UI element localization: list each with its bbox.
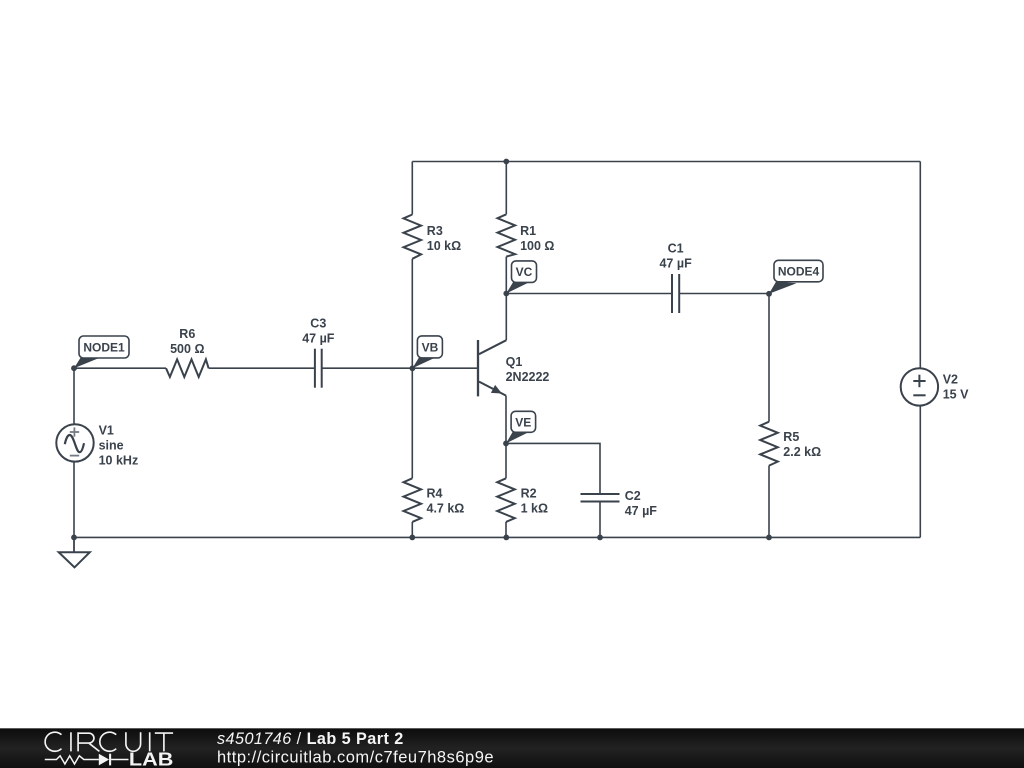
- wire NODE1 to V1: [73, 368, 75, 424]
- junction NODE1: [71, 365, 77, 371]
- junction VC: [503, 291, 509, 297]
- value label V2 15 V: [943, 373, 969, 402]
- resistor R1: [498, 214, 516, 256]
- junction bottom rail ground: [71, 535, 77, 541]
- wire R1 lower lead to VC: [505, 257, 507, 294]
- resistor R3: [404, 215, 422, 259]
- svg-text:R1: R1: [520, 224, 536, 238]
- junction bottom rail R5: [766, 535, 772, 541]
- node VE: [506, 411, 536, 443]
- resistor R6: [166, 359, 209, 377]
- node VB: [412, 336, 442, 368]
- capacitor C3: [315, 349, 322, 388]
- wire R3 lower lead to VB: [411, 259, 413, 369]
- svg-text:NODE1: NODE1: [83, 341, 125, 355]
- svg-text:15 V: 15 V: [943, 388, 969, 402]
- node NODE4: [769, 260, 823, 294]
- logo resistor-diode symbol: [45, 754, 129, 766]
- junction VE: [503, 441, 509, 447]
- svg-text:47 µF: 47 µF: [625, 504, 658, 518]
- junction bottom rail R4: [409, 535, 415, 541]
- value label R5 2.2 kΩ: [783, 430, 821, 459]
- svg-text:4.7 kΩ: 4.7 kΩ: [427, 502, 465, 516]
- wire R6 to C3: [209, 367, 315, 369]
- value label C3 47 µF: [302, 317, 335, 346]
- footer bar: [0, 728, 1024, 768]
- svg-text:100 Ω: 100 Ω: [520, 239, 554, 253]
- wire C1 to NODE4: [679, 293, 769, 295]
- svg-text:s4501746 / Lab 5 Part 2: s4501746 / Lab 5 Part 2: [217, 730, 404, 748]
- svg-text:V2: V2: [943, 373, 958, 387]
- transistor Q1: [478, 340, 506, 396]
- junction bottom rail R2: [503, 535, 509, 541]
- wire VE to C2: [506, 443, 600, 494]
- svg-text:1 kΩ: 1 kΩ: [521, 502, 548, 516]
- wire R5 lower lead: [768, 466, 770, 538]
- svg-text:C1: C1: [668, 242, 684, 256]
- svg-text:R6: R6: [179, 327, 195, 341]
- svg-text:10 kHz: 10 kHz: [99, 454, 139, 468]
- svg-text:NODE4: NODE4: [778, 265, 820, 279]
- svg-text:47 µF: 47 µF: [659, 257, 692, 271]
- resistor R2: [497, 478, 515, 522]
- resistor R4: [404, 478, 422, 522]
- wire VC to C1: [506, 293, 672, 295]
- value label Q1 2N2222: [506, 355, 550, 384]
- svg-text:sine: sine: [99, 439, 124, 453]
- voltage source V1: [56, 424, 93, 461]
- value label R2 1 kΩ: [521, 487, 548, 516]
- wire V1 to bottom rail: [73, 461, 75, 537]
- value label V1 sine 10 kHz: [99, 424, 139, 468]
- wire right rail lower (V2 to bottom rail): [919, 405, 921, 537]
- svg-text:V1: V1: [99, 424, 114, 438]
- node NODE1: [74, 336, 129, 368]
- capacitor C2: [581, 494, 620, 502]
- svg-text:2N2222: 2N2222: [506, 370, 550, 384]
- resistor R5: [760, 422, 778, 466]
- wire Q1 emitter to VE: [505, 396, 507, 444]
- wire C3 to Q1 base: [322, 367, 478, 369]
- value label R1 100 Ω: [520, 224, 554, 253]
- voltage source V2: [901, 368, 938, 405]
- value label C1 47 µF: [659, 242, 692, 271]
- value label R3 10 kΩ: [427, 224, 461, 253]
- wire R3 upper lead: [411, 162, 413, 215]
- wire R2 upper lead from VE: [505, 443, 507, 478]
- wire NODE1 to R6: [74, 367, 166, 369]
- svg-text:10 kΩ: 10 kΩ: [427, 239, 461, 253]
- svg-text:C3: C3: [310, 317, 326, 331]
- wire VC to Q1 collector: [505, 294, 507, 341]
- wire R4 lower lead: [411, 522, 413, 538]
- svg-text:C2: C2: [625, 489, 641, 503]
- junction NODE4: [766, 291, 772, 297]
- wire R2 lower lead: [505, 522, 507, 538]
- junction bottom rail C2: [597, 535, 603, 541]
- value label R6 500 Ω: [170, 327, 204, 356]
- svg-text:VE: VE: [515, 415, 531, 429]
- wire C2 to bottom rail: [599, 502, 601, 538]
- svg-text:2.2 kΩ: 2.2 kΩ: [783, 445, 821, 459]
- svg-text:47 µF: 47 µF: [302, 332, 335, 346]
- junction VB: [410, 365, 416, 371]
- svg-text:Q1: Q1: [506, 355, 523, 369]
- svg-text:R3: R3: [427, 224, 443, 238]
- wire R4 upper lead from VB: [411, 368, 413, 478]
- wire NODE4 to R5: [768, 294, 770, 422]
- svg-text:R4: R4: [427, 487, 443, 501]
- value label C2 47 µF: [625, 489, 658, 518]
- junction top rail R1: [503, 159, 509, 165]
- svg-text:R2: R2: [521, 487, 537, 501]
- wire R1 upper lead: [505, 162, 507, 215]
- value label R4 4.7 kΩ: [427, 487, 465, 516]
- svg-text:VC: VC: [516, 265, 533, 279]
- svg-text:LAB: LAB: [129, 749, 174, 768]
- svg-text:R5: R5: [783, 430, 799, 444]
- ground: [59, 537, 90, 567]
- wire bottom rail: [74, 536, 920, 538]
- capacitor C1: [672, 274, 679, 313]
- svg-text:500 Ω: 500 Ω: [170, 342, 204, 356]
- wire top rail: [412, 161, 920, 163]
- wire right rail upper (top rail to V2): [919, 162, 921, 369]
- svg-text:http://circuitlab.com/c7feu7h8: http://circuitlab.com/c7feu7h8s6p9e: [217, 749, 494, 767]
- svg-text:VB: VB: [422, 340, 439, 354]
- logo CIRCUIT wordmark: [45, 732, 173, 751]
- node VC: [506, 261, 536, 294]
